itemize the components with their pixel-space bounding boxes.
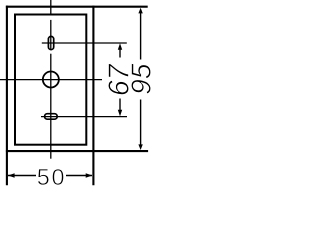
- 95 dimension line upper shaft: [140, 12, 142, 60]
- outer plate right edge + 50-dim extension: [92, 6, 94, 186]
- 67 dim top arrowhead: [118, 43, 122, 50]
- 50 dim left arrowhead: [8, 173, 15, 177]
- outer plate top edge + 95-dim extension: [6, 6, 148, 8]
- 50 dim right arrowhead: [86, 173, 93, 177]
- vertical centerline segment 1: [50, 0, 52, 15]
- 95 dimension line lower shaft: [140, 100, 142, 146]
- 50 dimension line left segment: [8, 175, 36, 177]
- 95 dim bottom arrowhead: [138, 144, 142, 150]
- bottom slot horizontal crosshair line: [41, 116, 127, 118]
- svg-text:50: 50: [37, 164, 67, 190]
- inner plate rectangle: [15, 15, 86, 145]
- 67 dimension line lower shaft: [119, 99, 121, 112]
- vertical centerline segment 3: [50, 54, 52, 159]
- dimension drawing of rectangular wall plate, 157x192: [0, 0, 157, 192]
- center circle: [43, 72, 59, 88]
- vertical centerline segment 2: [50, 20, 52, 50]
- circle horizontal crosshair line: [0, 79, 102, 81]
- top slot horizontal crosshair line: [42, 42, 127, 44]
- svg-text:95: 95: [126, 63, 157, 95]
- 67 dimension line upper shaft: [119, 48, 121, 58]
- outer plate left edge + 50-dim extension: [6, 6, 8, 186]
- bottom slot (horizontal obround): [45, 114, 58, 120]
- 67 dim bottom arrowhead: [118, 110, 122, 117]
- 50 dimension line right segment: [66, 175, 92, 177]
- outer plate bottom edge + 95-dim extension: [6, 150, 148, 152]
- top slot (vertical obround): [48, 36, 53, 49]
- 95 dim top arrowhead: [138, 8, 142, 14]
